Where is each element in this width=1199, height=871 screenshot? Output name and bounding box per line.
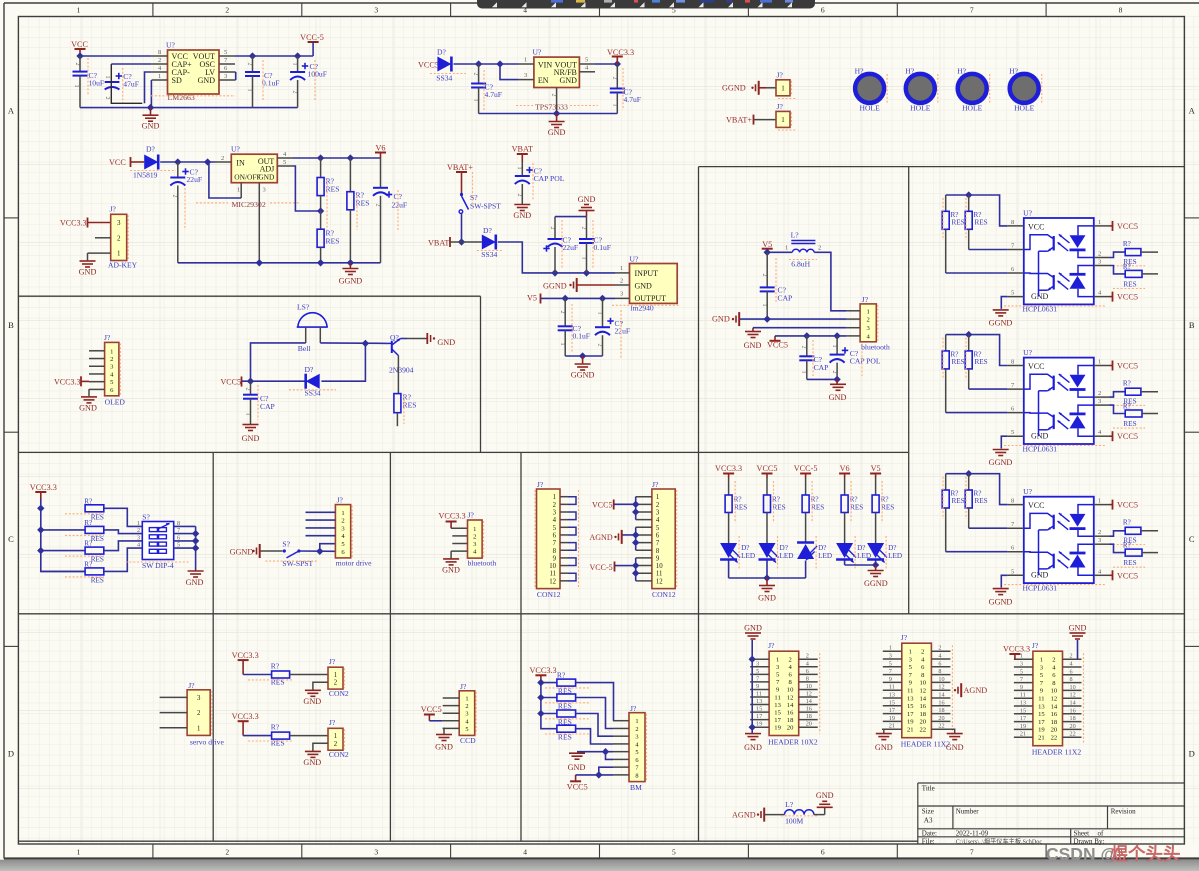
svg-text:10: 10 — [656, 563, 663, 570]
svg-text:J?: J? — [329, 657, 336, 666]
svg-text:2: 2 — [375, 204, 381, 207]
svg-text:B: B — [8, 320, 14, 330]
svg-text:3: 3 — [137, 534, 140, 541]
svg-text:R?: R? — [271, 722, 280, 731]
svg-text:1: 1 — [559, 343, 565, 346]
svg-text:RES: RES — [1123, 281, 1136, 289]
svg-text:GGND: GGND — [989, 319, 1013, 328]
svg-text:20: 20 — [1070, 723, 1076, 730]
resistor R? (opto out A #2) — [1113, 380, 1145, 406]
svg-text:煜个头头: 煜个头头 — [1111, 844, 1181, 864]
svg-text:GND: GND — [875, 743, 893, 752]
wire opto resB tail #2 — [1142, 413, 1158, 415]
svg-text:2: 2 — [559, 311, 565, 314]
wire btC pin4 to GND — [450, 551, 452, 558]
net label GGND (pin conn) — [722, 81, 759, 95]
svg-text:15: 15 — [756, 706, 762, 713]
svg-text:VCC5: VCC5 — [221, 378, 241, 387]
svg-text:2: 2 — [117, 234, 121, 242]
resistor R? (LED 5) — [872, 481, 894, 523]
svg-text:4.7uF: 4.7uF — [624, 95, 642, 104]
svg-text:2: 2 — [137, 527, 140, 534]
net label GGND (lm2940) — [543, 278, 577, 292]
wire R1 to DIP pin1 — [104, 508, 143, 526]
connector J? bluetooth (top) — [846, 295, 890, 352]
svg-text:VCC: VCC — [1028, 501, 1044, 510]
svg-text:Number: Number — [956, 808, 980, 816]
power port VCC5 (opto pin4 #2) — [1113, 431, 1138, 441]
svg-text:1: 1 — [553, 494, 556, 501]
svg-text:VCC-5: VCC-5 — [794, 464, 818, 473]
svg-text:INPUT: INPUT — [635, 269, 659, 278]
svg-text:1: 1 — [245, 413, 251, 416]
wire VCC3.3 to R (CON2 #1) — [243, 674, 272, 676]
svg-text:D?: D? — [305, 365, 314, 374]
svg-text:1: 1 — [197, 725, 200, 732]
svg-text:9: 9 — [656, 555, 660, 562]
svg-text:RES: RES — [403, 401, 417, 410]
svg-text:15: 15 — [774, 709, 781, 716]
connector J? CON12 (right) — [636, 480, 677, 599]
svg-text:2: 2 — [334, 680, 338, 687]
svg-text:V6: V6 — [375, 144, 385, 153]
svg-text:GND: GND — [578, 195, 596, 204]
svg-text:17: 17 — [774, 717, 781, 724]
label HCPL0631 #3 — [1004, 583, 1105, 592]
svg-text:Title: Title — [922, 785, 935, 793]
svg-text:2: 2 — [1098, 251, 1101, 258]
svg-text:R?: R? — [1123, 519, 1131, 527]
svg-text:LS?: LS? — [297, 303, 310, 312]
switch S? SW DIP-4 — [137, 512, 180, 559]
svg-text:D?: D? — [818, 544, 826, 552]
svg-text:21: 21 — [1038, 735, 1045, 742]
resistor R? (opto in B #2) — [965, 335, 987, 390]
wire bt caps rail — [807, 378, 837, 380]
label TPS73633 — [516, 103, 598, 112]
svg-text:U?: U? — [166, 41, 175, 50]
svg-text:10: 10 — [920, 680, 927, 687]
svg-text:11: 11 — [1020, 692, 1026, 699]
svg-text:4: 4 — [656, 517, 660, 524]
wire opto pin2 out #2 — [1110, 392, 1126, 397]
svg-text:D: D — [1189, 748, 1195, 758]
wire EN link — [500, 64, 519, 80]
net label AGND (header2) — [954, 683, 987, 697]
svg-text:CAP: CAP — [260, 402, 275, 411]
ground GND (OLED) — [79, 397, 97, 413]
svg-text:HOLE: HOLE — [962, 104, 983, 113]
svg-text:6: 6 — [1070, 668, 1073, 675]
power port VCC5 (opto pin1 #2) — [1113, 361, 1138, 371]
svg-text:10: 10 — [1070, 684, 1076, 691]
svg-text:4: 4 — [553, 517, 557, 524]
svg-text:2: 2 — [788, 657, 791, 664]
svg-text:3: 3 — [756, 660, 759, 667]
svg-text:VCC5: VCC5 — [767, 341, 788, 350]
svg-text:2: 2 — [104, 97, 110, 100]
wire VCC3.3 to pin3 — [88, 222, 111, 224]
ground GND (VBAT cap) — [513, 205, 531, 221]
svg-text:3: 3 — [889, 653, 892, 660]
svg-text:1: 1 — [831, 345, 837, 348]
svg-text:HOLE: HOLE — [910, 104, 931, 113]
svg-text:2: 2 — [831, 371, 837, 374]
wire switch to motor pin6 — [299, 550, 336, 552]
connector J? CON2 #1 — [328, 657, 349, 698]
wire opto pin6 #1 — [946, 272, 1008, 274]
svg-text:5: 5 — [656, 525, 660, 532]
svg-text:1: 1 — [110, 348, 113, 355]
net label GGND (motor) — [230, 544, 260, 558]
block partition lines — [18, 295, 480, 297]
wire LED2 bottom — [766, 561, 768, 579]
sheet outer frame — [4, 2, 1199, 4]
svg-text:EN: EN — [538, 76, 549, 85]
svg-text:D?: D? — [741, 544, 749, 552]
svg-text:0.1uF: 0.1uF — [262, 79, 280, 88]
svg-text:2: 2 — [1052, 657, 1055, 664]
svg-text:J?: J? — [652, 480, 659, 489]
wire opto resB tail #3 — [1142, 552, 1158, 554]
diode D? SS34 (TPS input) — [430, 48, 466, 83]
wire VCC5 to CCD pin4 — [429, 720, 442, 722]
wire opto pin3 out #2 — [1110, 405, 1126, 413]
power port VCC3.3 (header3) — [1003, 645, 1030, 660]
svg-text:GND: GND — [635, 282, 653, 291]
wire CON2 pin2 to GND (#2) — [313, 743, 328, 751]
capacitor C? 47uF — [104, 68, 139, 104]
svg-text:RES: RES — [271, 677, 285, 686]
svg-text:13: 13 — [907, 695, 914, 702]
wire opto pin7 #3 — [969, 527, 1008, 529]
power port VCC3.3 (CON2 #2) — [232, 712, 259, 735]
svg-text:1: 1 — [761, 304, 767, 307]
svg-text:GND: GND — [1069, 624, 1087, 633]
svg-text:3: 3 — [1098, 537, 1101, 544]
resistor R? (opto out A #1) — [1113, 240, 1145, 266]
svg-text:1: 1 — [292, 63, 298, 66]
resistor R? (CON2 #1) — [248, 661, 292, 686]
ground GND (bt pin3) — [744, 328, 762, 350]
svg-text:2: 2 — [172, 195, 178, 198]
svg-text:5: 5 — [283, 159, 286, 166]
wire opto resA tail #2 — [1141, 391, 1158, 393]
ground GND (CON2 #2) — [303, 751, 321, 767]
svg-text:2: 2 — [612, 77, 618, 80]
svg-text:GND: GND — [79, 268, 97, 277]
svg-text:U?: U? — [1023, 487, 1032, 496]
svg-text:6: 6 — [635, 757, 638, 764]
wire VCC3.3 to R (CON2 #2) — [243, 735, 272, 737]
svg-text:16: 16 — [938, 699, 944, 706]
svg-text:3: 3 — [524, 72, 527, 79]
svg-text:RES: RES — [975, 497, 988, 505]
resistor R? (BM 3) — [545, 710, 590, 727]
wire input caps top rail — [555, 216, 587, 218]
svg-text:J?: J? — [329, 718, 336, 727]
svg-text:8: 8 — [806, 675, 809, 682]
svg-text:15: 15 — [889, 699, 895, 706]
svg-text:VCC3.3: VCC3.3 — [30, 483, 57, 492]
ground GND (bt caps) — [829, 379, 847, 402]
svg-text:17: 17 — [756, 713, 762, 720]
power port VCC3.3 (bt C) — [439, 511, 466, 528]
resistor R? (LED 4) — [841, 481, 863, 523]
connector J? motor drive — [306, 496, 373, 568]
capacitor C? 4.7uF (TPS out) — [610, 64, 641, 114]
net label AGND (filter) — [732, 808, 764, 822]
svg-text:7: 7 — [970, 848, 974, 857]
svg-text:R?: R? — [557, 671, 566, 680]
svg-text:8: 8 — [1119, 6, 1123, 15]
capacitor C? 22uF (MIC out) — [373, 158, 407, 263]
wire LED2 top — [766, 478, 768, 495]
svg-text:13: 13 — [1020, 700, 1026, 707]
svg-text:GND: GND — [560, 76, 578, 85]
svg-text:12: 12 — [1051, 696, 1058, 703]
svg-text:20: 20 — [806, 721, 812, 728]
power port VCC5 (BM) — [567, 775, 588, 792]
svg-text:8: 8 — [635, 772, 638, 779]
wire AGND to CON12 pins5-8 — [623, 534, 636, 536]
wire LED5 bottom — [875, 561, 877, 566]
wire collector down — [397, 356, 399, 394]
wire BM R1 to pin1 — [576, 683, 614, 721]
svg-text:RES: RES — [975, 219, 988, 227]
svg-text:2: 2 — [473, 533, 476, 540]
svg-text:13: 13 — [756, 698, 762, 705]
svg-text:6: 6 — [806, 668, 809, 675]
capacitor C? 0.1uF (lm2940 in) — [579, 217, 611, 273]
svg-text:GGND: GGND — [571, 371, 595, 380]
wire LED5 top — [875, 478, 877, 495]
svg-text:VCC3.3: VCC3.3 — [715, 464, 742, 473]
svg-text:4: 4 — [137, 542, 140, 549]
svg-text:2: 2 — [867, 317, 870, 324]
power port VCC3.3 (LED 1) — [715, 464, 742, 478]
svg-text:2: 2 — [597, 344, 603, 347]
svg-text:R?: R? — [1123, 263, 1131, 271]
svg-text:GND: GND — [435, 743, 453, 752]
resistor R? (opto out B #1) — [1113, 263, 1145, 289]
resistor R? (opto in B #1) — [965, 195, 987, 250]
power port V6 (LED 4) — [839, 464, 850, 478]
resistor R? (opto out B #3) — [1113, 542, 1145, 568]
svg-text:ON/OFF: ON/OFF — [234, 173, 260, 182]
svg-text:1: 1 — [597, 312, 603, 315]
op-amp U? lm2940 — [615, 255, 677, 304]
resistor R? (opto in A #3) — [942, 474, 964, 552]
svg-text:A: A — [8, 106, 15, 116]
svg-text:5: 5 — [889, 660, 892, 667]
svg-text:C: C — [8, 534, 14, 544]
power port VCC5 (LED 2) — [757, 464, 778, 478]
svg-text:D?: D? — [483, 226, 492, 235]
svg-text:8: 8 — [1011, 359, 1014, 366]
svg-text:HOLE: HOLE — [859, 104, 880, 113]
svg-text:4: 4 — [806, 660, 809, 667]
svg-text:RES: RES — [91, 556, 104, 564]
wire opto pin6 #3 — [946, 551, 1008, 553]
svg-text:2: 2 — [245, 388, 251, 391]
resistor R? (opto in A #2) — [942, 335, 964, 413]
title block — [918, 782, 1185, 784]
svg-text:VCC5: VCC5 — [1117, 571, 1138, 580]
ground GND (BM) — [568, 753, 586, 772]
power port VCC5 (opto pin4 #3) — [1113, 570, 1138, 580]
power port VCC-5 (LED 3) — [794, 464, 818, 478]
capacitor C? 0.1uF (LM2663 out) — [245, 56, 280, 108]
svg-text:20: 20 — [787, 725, 794, 732]
svg-text:J?: J? — [901, 633, 908, 642]
svg-text:3: 3 — [197, 695, 201, 702]
svg-text:TPS73633: TPS73633 — [535, 103, 568, 112]
svg-text:VBAT+: VBAT+ — [447, 163, 473, 172]
svg-text:9: 9 — [553, 555, 557, 562]
svg-text:19: 19 — [907, 719, 914, 726]
svg-text:11: 11 — [549, 571, 556, 578]
svg-text:11: 11 — [774, 694, 780, 701]
svg-text:VCC: VCC — [1028, 362, 1044, 371]
svg-text:CCD: CCD — [460, 736, 476, 745]
svg-text:VIN: VIN — [538, 61, 552, 70]
svg-text:12: 12 — [1070, 692, 1076, 699]
wire GGND to J? — [760, 87, 767, 89]
wire GND to bt pin2 — [740, 318, 846, 320]
power port VCC5 (CON12) — [592, 500, 614, 510]
svg-text:2: 2 — [110, 356, 113, 363]
power port V5 (LED 5) — [870, 464, 881, 478]
op-amp U? HCPL0631 #1 — [1007, 209, 1109, 305]
svg-text:2: 2 — [549, 227, 555, 230]
svg-text:U?: U? — [1023, 348, 1032, 357]
svg-text:CAP POL: CAP POL — [850, 357, 881, 366]
svg-text:1: 1 — [341, 510, 344, 517]
wire GGND to lm2940 GND pin — [578, 284, 616, 286]
net label AGND (CON12) — [590, 530, 622, 544]
svg-text:GND: GND — [744, 341, 762, 350]
label lm2940 — [612, 304, 680, 313]
svg-text:19: 19 — [889, 715, 895, 722]
svg-text:IN: IN — [236, 159, 245, 168]
svg-text:8: 8 — [158, 49, 161, 56]
wire CON2 pin2 to GND (#1) — [313, 682, 328, 690]
svg-text:10: 10 — [938, 676, 944, 683]
wire opto pin5 to ground #2 — [1001, 436, 1007, 448]
svg-text:10: 10 — [806, 683, 812, 690]
wire TPS bottom rail — [479, 113, 618, 115]
svg-text:D?: D? — [857, 544, 865, 552]
svg-text:V5: V5 — [527, 294, 537, 303]
power port VCC5 (bell) — [221, 377, 242, 387]
wire L2 to bluetooth pin1 — [814, 252, 846, 310]
svg-text:GND: GND — [437, 338, 455, 347]
svg-text:HEADER 10X2: HEADER 10X2 — [768, 738, 818, 747]
svg-text:GGND: GGND — [989, 597, 1013, 606]
svg-text:GND: GND — [513, 211, 531, 220]
svg-text:J?: J? — [104, 333, 111, 342]
svg-text:LED: LED — [741, 552, 755, 560]
op-amp U? MIC29302 — [215, 145, 293, 263]
svg-text:RES: RES — [773, 504, 786, 512]
svg-text:R?: R? — [84, 519, 92, 527]
svg-text:21: 21 — [1020, 731, 1026, 738]
svg-text:2: 2 — [818, 245, 821, 252]
power port VCC5 (opto pin4 #1) — [1113, 292, 1138, 302]
svg-text:18: 18 — [1070, 715, 1076, 722]
ground GGND (opto #1) — [989, 310, 1013, 328]
wire R to CON2 pin1 (#1) — [290, 674, 328, 676]
svg-text:GND: GND — [829, 393, 847, 402]
power port V5 (bluetooth) — [762, 240, 773, 253]
resistor R? (opto out A #3) — [1113, 519, 1145, 545]
svg-text:2: 2 — [341, 518, 344, 525]
toolbar — [477, 0, 815, 9]
svg-text:V5: V5 — [762, 240, 772, 249]
wire opto top rail #3 — [946, 474, 1008, 505]
svg-text:RES: RES — [91, 535, 104, 543]
svg-text:19: 19 — [774, 725, 781, 732]
svg-text:1: 1 — [635, 718, 638, 725]
svg-text:4.7uF: 4.7uF — [485, 90, 503, 99]
svg-text:2N3904: 2N3904 — [389, 366, 414, 375]
svg-text:13: 13 — [774, 702, 781, 709]
wire bell left leg — [251, 343, 306, 381]
svg-text:2: 2 — [292, 91, 298, 94]
svg-text:GND: GND — [1031, 292, 1049, 301]
svg-text:J?: J? — [1032, 641, 1039, 650]
svg-text:B: B — [1189, 320, 1195, 330]
svg-text:21: 21 — [907, 727, 914, 734]
resistor R? (LED 1) — [725, 481, 747, 523]
wire OUT to V6 — [293, 157, 381, 159]
svg-text:3: 3 — [1098, 398, 1101, 405]
wire BM bus to R1 — [541, 682, 557, 684]
wire header2 pin22 to GND — [950, 729, 954, 733]
svg-text:GND: GND — [198, 76, 216, 85]
svg-text:RES: RES — [975, 358, 988, 366]
net label VBAT+ (pin conn) — [726, 115, 754, 125]
svg-text:1: 1 — [612, 104, 618, 107]
svg-text:2: 2 — [334, 741, 338, 748]
svg-text:2: 2 — [551, 94, 557, 97]
svg-text:20: 20 — [938, 715, 944, 722]
wire ON/OFF to IN — [209, 162, 241, 198]
net label GND (bt pin2) — [712, 312, 739, 326]
svg-text:GND: GND — [548, 128, 566, 137]
svg-text:1: 1 — [1098, 359, 1101, 366]
svg-text:10uF: 10uF — [89, 79, 105, 88]
wire switch to VBAT rail — [461, 213, 463, 242]
svg-text:L?: L? — [785, 800, 794, 809]
svg-text:8: 8 — [656, 548, 660, 555]
svg-text:VCC: VCC — [71, 40, 88, 49]
svg-text:VCC5: VCC5 — [567, 783, 588, 792]
svg-text:BM: BM — [630, 783, 642, 792]
svg-text:3: 3 — [263, 187, 266, 194]
svg-text:17: 17 — [907, 711, 914, 718]
svg-text:AGND: AGND — [964, 686, 988, 695]
svg-text:R?: R? — [84, 497, 92, 505]
svg-text:1: 1 — [465, 696, 468, 703]
svg-text:VCC3.3: VCC3.3 — [439, 511, 466, 520]
svg-text:3: 3 — [224, 73, 227, 80]
resistor R? (MIC divider bottom) — [317, 211, 339, 263]
resistor R? (CON2 #2) — [248, 722, 292, 747]
svg-text:16: 16 — [920, 703, 927, 710]
ground GND (CCD) — [435, 735, 453, 752]
